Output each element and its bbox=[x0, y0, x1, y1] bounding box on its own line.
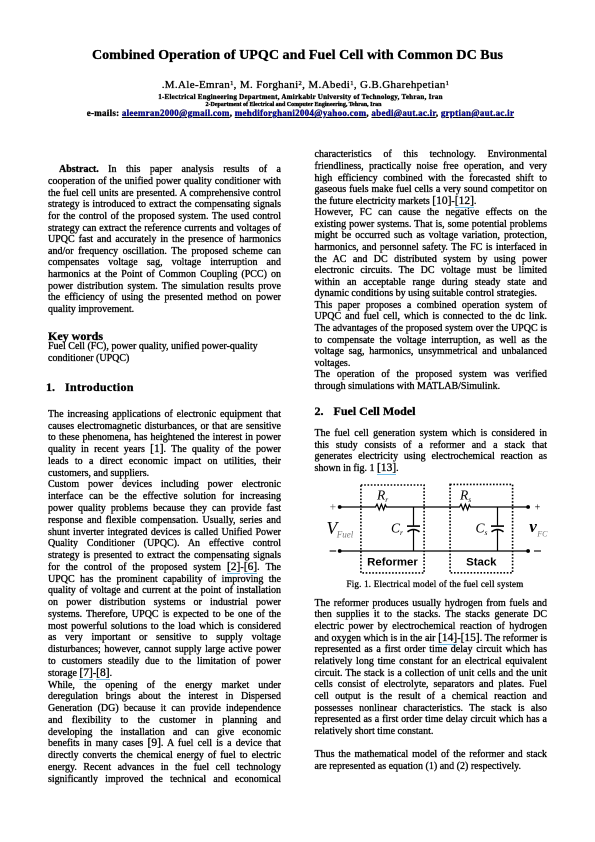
input minus sign bbox=[330, 550, 337, 552]
svg-text:Cr: Cr bbox=[391, 521, 403, 538]
Figure 1: electrical model of the fuel cell system bbox=[315, 478, 555, 593]
right column part D bbox=[315, 749, 548, 772]
capacitor Cs lead bottom bbox=[497, 530, 499, 551]
svg-text:Reformer: Reformer bbox=[367, 557, 418, 569]
affiliation 2 bbox=[0, 101, 591, 109]
wire top right bbox=[472, 506, 529, 508]
wire top middle bbox=[388, 506, 459, 508]
capacitor Cr lead bottom bbox=[413, 530, 415, 551]
svg-text:Rs: Rs bbox=[459, 488, 471, 505]
svg-text:Stack: Stack bbox=[466, 557, 497, 569]
node output plus terminal bbox=[526, 505, 530, 509]
svg-text:Rr: Rr bbox=[376, 488, 388, 505]
wire bottom bbox=[340, 550, 528, 552]
right column part A bbox=[315, 149, 548, 392]
e-mails line bbox=[3, 108, 595, 118]
node input minus terminal bbox=[338, 549, 342, 553]
capacitor Cr lead top bbox=[413, 507, 415, 525]
wire top left bbox=[340, 506, 374, 508]
dashed box Reformer bbox=[361, 485, 424, 573]
svg-text:FC: FC bbox=[536, 530, 548, 539]
node output minus terminal bbox=[526, 549, 530, 553]
svg-text:+: + bbox=[330, 502, 337, 514]
introduction paragraphs bbox=[48, 409, 281, 786]
paper title bbox=[0, 48, 595, 64]
svg-text:v: v bbox=[529, 517, 537, 536]
svg-text:Fuel: Fuel bbox=[336, 529, 354, 539]
figure caption bbox=[319, 579, 552, 589]
capacitor Cs plates bbox=[491, 525, 504, 527]
abstract block bbox=[48, 164, 281, 315]
resistor Rs bbox=[458, 504, 472, 510]
svg-text:Cs: Cs bbox=[476, 521, 488, 538]
dashed box Stack bbox=[450, 484, 512, 572]
capacitor Cs lead top bbox=[497, 507, 499, 525]
node input plus terminal bbox=[338, 505, 342, 509]
capacitor Cr plates bbox=[407, 525, 420, 527]
keywords text bbox=[48, 341, 281, 364]
affiliation 1 bbox=[3, 93, 595, 101]
right column part B bbox=[315, 428, 548, 475]
output minus sign bbox=[534, 550, 541, 552]
Key words heading bbox=[48, 329, 103, 343]
section 2 heading bbox=[315, 404, 416, 418]
section 1 heading bbox=[46, 380, 134, 394]
svg-text:+: + bbox=[535, 503, 541, 514]
right column part C bbox=[315, 598, 548, 738]
authors line bbox=[8, 79, 595, 93]
resistor Rr bbox=[374, 504, 388, 510]
